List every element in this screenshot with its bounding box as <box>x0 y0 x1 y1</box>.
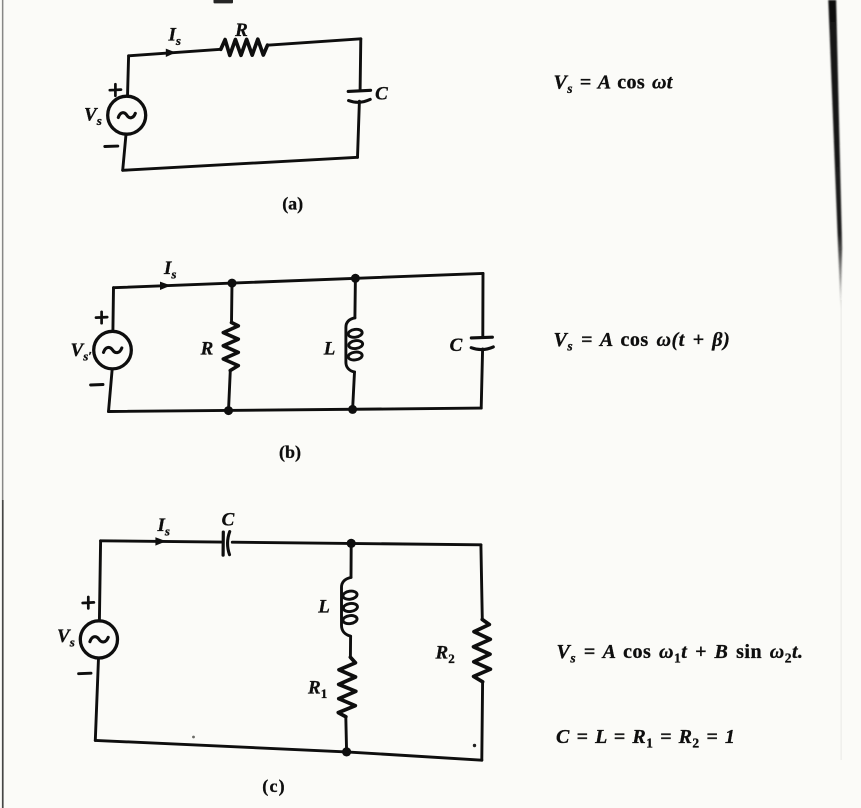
wire: (c) middle branch upper <box>350 543 353 577</box>
inductor L (b) spine <box>346 318 355 372</box>
svg-text:L: L <box>317 597 330 618</box>
wire: (b) top wire <box>114 273 484 287</box>
svg-text:Vs: Vs <box>84 104 102 128</box>
svg-text:(a): (a) <box>282 193 303 214</box>
node dot (b) top R <box>228 279 237 288</box>
svg-text:Is: Is <box>157 515 170 539</box>
svg-text:R: R <box>234 20 248 41</box>
wire: (a) left vertical from top-left corner to source top <box>128 56 129 97</box>
wire: (b) L branch upper <box>353 278 356 318</box>
capacitor C (a) bottom curved plate <box>349 99 371 102</box>
svg-text:Is: Is <box>168 25 181 49</box>
minus sign (b) <box>91 383 103 386</box>
resistor R2 (c) zigzag <box>474 620 491 682</box>
svg-text:(b): (b) <box>279 442 301 463</box>
capacitor C (b) top plate <box>471 336 492 340</box>
inductor L (b) loop 1 <box>348 328 363 338</box>
wire: (c) middle branch lower <box>344 717 348 752</box>
inductor L (b) loop 3 <box>348 351 363 361</box>
plus sign (b) <box>96 312 107 323</box>
wire: (c) top wire right of capacitor <box>232 542 481 545</box>
wire: (b) right vertical upper to capacitor <box>481 273 484 337</box>
plus sign (c) <box>83 597 94 608</box>
node dot (b) top L <box>351 274 360 283</box>
top cropped text mark <box>214 0 234 3</box>
page right edge scan line <box>828 0 842 312</box>
wire: (c) bottom wire <box>95 740 482 760</box>
wire: (a) right vertical upper (to capacitor) <box>359 39 363 90</box>
wire: (a) right vertical lower <box>358 101 360 157</box>
wire: (a) top wire left segment with corner <box>129 49 221 56</box>
wire: (c) middle branch between L and R1 <box>349 636 352 657</box>
svg-text:Vs: Vs <box>57 626 75 650</box>
svg-text:C: C <box>222 509 235 530</box>
svg-text:R2: R2 <box>435 643 455 667</box>
wire: (c) right vertical lower <box>480 682 484 760</box>
svg-text:Vs = A cos ω1t + B sin ω2t.: Vs = A cos ω1t + B sin ω2t. <box>557 641 804 666</box>
resistor R1 (c) zigzag <box>338 657 356 717</box>
svg-text:C: C <box>450 335 463 356</box>
svg-text:Vs′: Vs′ <box>71 340 93 364</box>
resistor R (b) zigzag <box>223 323 238 371</box>
svg-text:Vs = A cos ω(t + β): Vs = A cos ω(t + β) <box>554 329 731 354</box>
inductor L (c) spine <box>342 577 352 636</box>
node dot (c) top <box>347 539 356 548</box>
wire: (b) R branch lower <box>229 371 231 411</box>
minus sign (c) <box>79 672 91 675</box>
wire: (b) left lower to bottom-left corner <box>109 369 113 412</box>
plus sign (a) <box>110 84 121 96</box>
wire: (a) bottom wire <box>123 157 358 170</box>
node dot (b) bottom R <box>224 406 233 415</box>
svg-text:C: C <box>375 84 388 105</box>
sine tilde inside source (b) <box>104 347 122 352</box>
wire: (c) left vertical to source top <box>99 541 100 621</box>
inductor L (c) loop 3 <box>342 615 357 625</box>
arrow Is (a) <box>166 49 176 57</box>
page left edge line <box>2 0 4 500</box>
wire: (c) top wire left of capacitor <box>101 541 222 542</box>
svg-text:R1: R1 <box>307 678 327 702</box>
arrow Is (b) <box>160 282 171 290</box>
wire: (b) bottom wire <box>109 408 482 411</box>
sine tilde inside source (a) <box>118 113 135 118</box>
svg-text:R: R <box>200 338 214 359</box>
inductor L (c) loop 1 <box>342 590 357 600</box>
voltage source Vs (c) circle <box>80 621 117 658</box>
speck near bottom wire (c) <box>192 736 195 739</box>
faint right edge continuation <box>840 300 842 760</box>
wire: (b) L branch lower <box>353 372 355 409</box>
sine tilde inside source (c) <box>90 637 108 642</box>
wire: (a) left lower from source bottom to bottom-left corner <box>123 134 126 170</box>
voltage source Vs (a) circle <box>108 96 146 134</box>
svg-text:C = L = R1 = R2 = 1: C = L = R1 = R2 = 1 <box>556 726 735 751</box>
capacitor C (a) top plate <box>348 90 370 91</box>
capacitor C (c) right curved plate <box>228 532 230 555</box>
wire: (b) R branch upper <box>230 283 233 322</box>
minus sign (a) <box>105 145 118 148</box>
wire: (b) right vertical lower <box>481 349 482 408</box>
voltage source Vs' (b) circle <box>94 331 132 369</box>
svg-text:L: L <box>323 339 336 360</box>
svg-text:Is: Is <box>163 258 176 282</box>
resistor R (a) zigzag <box>221 39 268 55</box>
speck dot right of R1 bottom (c) <box>473 744 476 747</box>
wire: (c) right vertical upper <box>481 545 482 620</box>
inductor L (b) loop 2 <box>348 340 363 350</box>
arrow Is (c) <box>155 537 166 545</box>
wire: (c) left lower to bottom-left corner <box>95 658 98 740</box>
svg-text:Vs = A cos ωt: Vs = A cos ωt <box>554 72 674 97</box>
svg-text:(c): (c) <box>262 776 286 797</box>
wire: (b) left vertical to source top <box>111 288 114 332</box>
capacitor C (b) bottom curved plate <box>471 347 493 350</box>
node dot (c) bottom <box>342 747 351 756</box>
wire: (a) top wire right segment <box>268 39 361 45</box>
inductor L (c) loop 2 <box>343 603 358 613</box>
node dot (b) bottom L <box>348 405 357 414</box>
capacitor C (c) left plate <box>222 532 225 555</box>
